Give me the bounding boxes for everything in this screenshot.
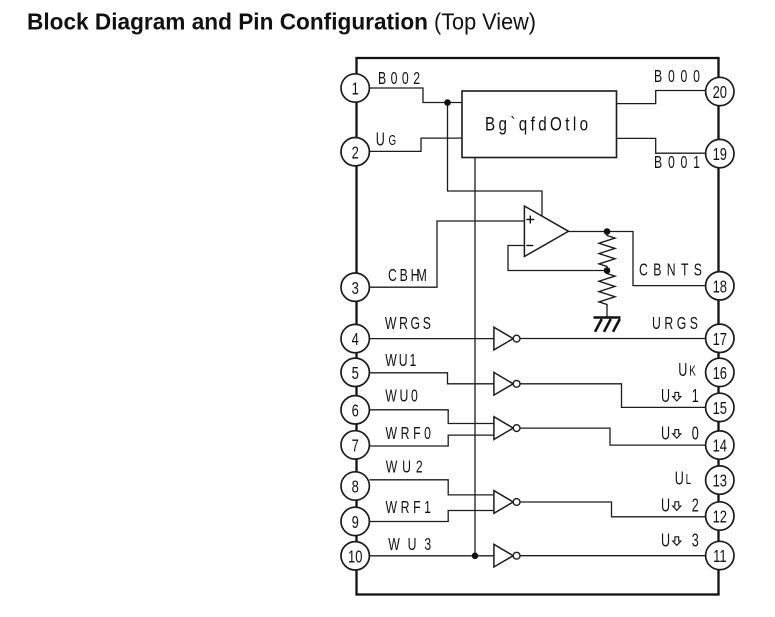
- svg-text:WU0: WU0: [385, 386, 418, 406]
- label pin14 U-arrow-0: [661, 424, 699, 444]
- pin 6: [341, 396, 369, 424]
- svg-text:CBH: CBH: [388, 266, 419, 286]
- svg-text:18: 18: [713, 277, 728, 297]
- svg-text:M: M: [417, 266, 427, 286]
- inverter G4: [494, 491, 520, 514]
- svg-text:WU2: WU2: [386, 457, 423, 477]
- wire block to pin20: [617, 91, 706, 104]
- svg-text:1: 1: [352, 80, 359, 100]
- pin 12: [706, 502, 734, 530]
- svg-text:U: U: [661, 387, 670, 407]
- resistor R2: [599, 271, 615, 308]
- pin 17: [706, 324, 734, 352]
- svg-text:2: 2: [352, 143, 359, 163]
- pin 14: [706, 431, 734, 459]
- label pin13 UL: [675, 469, 691, 489]
- pin 1: [341, 74, 369, 102]
- pin 2: [341, 138, 369, 166]
- label pin11 U-arrow-3: [661, 531, 699, 551]
- pin 3: [341, 273, 369, 301]
- svg-text:WU3: WU3: [388, 535, 431, 555]
- ground: [594, 318, 621, 332]
- svg-text:5: 5: [352, 364, 359, 384]
- wire inverter4 to pin12: [520, 502, 706, 517]
- svg-text:4: 4: [352, 330, 359, 350]
- resistor R1: [599, 232, 615, 271]
- pin 20: [706, 77, 734, 105]
- svg-text:(Top View): (Top View): [434, 9, 536, 35]
- pin 4: [341, 324, 369, 352]
- wire pin6 to inverter3: [370, 410, 495, 424]
- svg-text:3: 3: [692, 531, 699, 551]
- wire op-amp output to pin18: [568, 232, 706, 286]
- pin 19: [706, 139, 734, 167]
- wire pin2 to block: [370, 138, 463, 151]
- svg-text:0: 0: [692, 424, 699, 444]
- svg-text:13: 13: [713, 472, 728, 492]
- svg-text:L: L: [686, 471, 692, 487]
- pin 7: [341, 431, 369, 459]
- wire pin10 to inverter5: [370, 555, 495, 557]
- wire inverter2 to pin15: [520, 384, 706, 408]
- inverter G2: [494, 372, 520, 395]
- wire pin4 to inverter1: [370, 338, 495, 340]
- junction node A: [444, 99, 451, 106]
- pin 8: [341, 472, 369, 500]
- svg-text:7: 7: [352, 437, 359, 457]
- label pin12 U-arrow-2: [661, 496, 699, 516]
- svg-text:U: U: [675, 469, 684, 489]
- junction feedback node: [604, 267, 611, 274]
- svg-text:G: G: [389, 132, 397, 148]
- svg-text:17: 17: [713, 330, 727, 350]
- svg-text:WRF1: WRF1: [386, 498, 431, 518]
- wire pin1 to block: [370, 88, 463, 103]
- svg-text:1: 1: [692, 387, 699, 407]
- op-amp U2: [524, 206, 568, 257]
- pin 10: [341, 542, 369, 570]
- junction pin10 wire: [472, 553, 479, 560]
- svg-text:WRF0: WRF0: [386, 424, 431, 444]
- svg-text:K: K: [689, 363, 696, 379]
- wire block to pin19: [617, 138, 706, 153]
- wire pin8 to inverter4: [370, 480, 495, 495]
- svg-text:Block Diagram and Pin Configur: Block Diagram and Pin Configuration: [27, 9, 428, 35]
- wire inverter5 to pin11: [520, 555, 706, 557]
- pin 15: [706, 393, 734, 421]
- svg-text:16: 16: [713, 364, 728, 384]
- junction op-amp output: [604, 228, 611, 235]
- svg-text:9: 9: [352, 513, 359, 533]
- pin 18: [706, 272, 734, 300]
- svg-text:3: 3: [352, 279, 359, 299]
- svg-text:12: 12: [713, 508, 727, 528]
- svg-text:8: 8: [352, 478, 359, 498]
- wire inverter3 to pin14: [520, 428, 706, 445]
- pin 9: [341, 507, 369, 535]
- inverter G5: [494, 544, 520, 567]
- wire pin5 to inverter2: [370, 373, 495, 384]
- IC package outline: [357, 58, 719, 595]
- svg-text:U: U: [376, 130, 385, 150]
- charge-pump block U1: [462, 91, 617, 158]
- pin 11: [706, 541, 734, 569]
- wire pin7 to inverter3: [370, 435, 495, 446]
- wire feedback to op-amp minus input: [508, 246, 607, 271]
- label pin16 UK: [678, 361, 696, 381]
- svg-text:U: U: [661, 424, 670, 444]
- wire R2 to ground: [606, 308, 608, 318]
- svg-text:19: 19: [713, 145, 727, 165]
- pin 5: [341, 358, 369, 386]
- svg-text:U: U: [661, 496, 670, 516]
- svg-text:WRGS: WRGS: [385, 314, 431, 334]
- wire inverter1 to pin17: [520, 338, 706, 340]
- wire node A to op-amp top: [448, 103, 543, 217]
- inverter G1: [494, 327, 520, 350]
- svg-text:11: 11: [713, 547, 726, 567]
- svg-text:15: 15: [713, 399, 728, 419]
- svg-text:2: 2: [692, 496, 699, 516]
- svg-text:U: U: [661, 531, 670, 551]
- svg-text:U: U: [678, 361, 687, 381]
- wire pin9 to inverter4: [370, 511, 495, 522]
- label pin15 U-arrow-1: [661, 387, 699, 407]
- wire pin3 to op-amp plus input: [370, 221, 525, 287]
- svg-text:WU1: WU1: [385, 351, 416, 371]
- pin 16: [706, 358, 734, 386]
- inverter G3: [494, 417, 520, 440]
- pin 13: [706, 466, 734, 494]
- svg-text:6: 6: [352, 401, 359, 421]
- label pin2 UG: [376, 130, 396, 150]
- svg-text:14: 14: [713, 437, 728, 457]
- svg-text:20: 20: [713, 83, 728, 103]
- svg-text:10: 10: [348, 547, 363, 567]
- wire block bottom long vertical: [474, 158, 476, 556]
